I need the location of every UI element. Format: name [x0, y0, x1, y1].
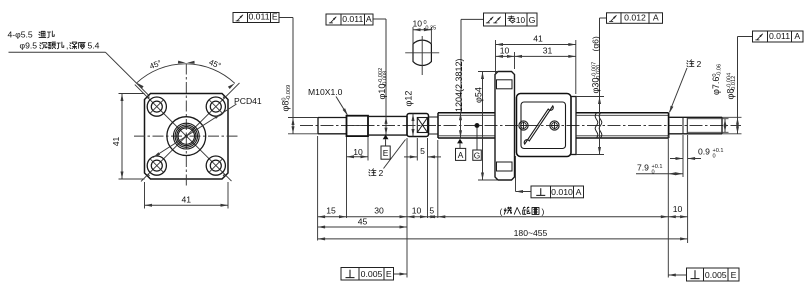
svg-text:10: 10	[673, 204, 683, 214]
svg-text:-0.25: -0.25	[424, 25, 437, 31]
svg-text:0.005: 0.005	[705, 270, 727, 280]
svg-text:E: E	[383, 148, 389, 158]
svg-text:A: A	[458, 150, 464, 160]
svg-text:0.012: 0.012	[624, 12, 646, 22]
svg-text:0: 0	[652, 169, 655, 175]
svg-text:G: G	[474, 150, 481, 160]
svg-text:7.9: 7.9	[637, 163, 649, 173]
svg-text:0.011: 0.011	[342, 14, 363, 24]
svg-text:2: 2	[697, 59, 702, 69]
svg-text:φ8-0.004-0.012: φ8-0.004-0.012	[726, 73, 738, 100]
svg-text:A: A	[576, 187, 582, 197]
svg-text:10: 10	[412, 206, 422, 216]
svg-text:15: 15	[326, 206, 336, 216]
svg-text:0.9: 0.9	[698, 147, 710, 157]
svg-text:1204(2.3812): 1204(2.3812)	[454, 58, 464, 112]
svg-text:31: 31	[543, 46, 553, 56]
svg-text:10: 10	[413, 19, 423, 29]
svg-text:0.011: 0.011	[248, 12, 269, 22]
svg-text:φ10-0.002-0.008: φ10-0.002-0.008	[377, 68, 389, 100]
svg-text:PCD41: PCD41	[234, 96, 262, 106]
svg-text:E: E	[272, 12, 278, 22]
svg-text:A: A	[653, 12, 659, 22]
svg-text:(g6): (g6)	[591, 36, 601, 51]
svg-text:4-φ5.5: 4-φ5.5	[8, 30, 33, 40]
svg-text:41: 41	[182, 195, 192, 205]
svg-text:φ54: φ54	[474, 87, 484, 103]
svg-text:2: 2	[379, 168, 384, 178]
svg-text:180~455: 180~455	[514, 228, 548, 238]
svg-text:10: 10	[500, 46, 510, 56]
svg-text:0.011: 0.011	[769, 31, 790, 41]
svg-text:φ9.5: φ9.5	[20, 41, 38, 51]
svg-text:45: 45	[358, 217, 368, 227]
svg-text:5: 5	[420, 146, 425, 156]
svg-text:): )	[542, 207, 545, 217]
svg-text:0.005: 0.005	[361, 269, 383, 279]
svg-text:φ12: φ12	[404, 91, 414, 107]
svg-text:5.4: 5.4	[88, 41, 100, 51]
svg-text:41: 41	[533, 34, 543, 44]
svg-text:,: ,	[66, 41, 68, 51]
svg-text:A: A	[366, 14, 372, 24]
svg-text:0.010: 0.010	[551, 187, 573, 197]
svg-text:5: 5	[429, 206, 434, 216]
svg-text:41: 41	[111, 137, 121, 147]
svg-text:G: G	[529, 15, 536, 25]
svg-text:φ30-0.007-0.020: φ30-0.007-0.020	[591, 62, 603, 94]
svg-text:10: 10	[353, 147, 363, 157]
svg-text:(: (	[500, 207, 503, 217]
svg-text:A: A	[794, 31, 800, 41]
svg-text:10: 10	[516, 16, 526, 25]
svg-text:30: 30	[374, 206, 384, 216]
svg-text:M10X1.0: M10X1.0	[308, 87, 343, 97]
svg-text:E: E	[731, 270, 737, 280]
svg-text:0: 0	[713, 153, 716, 159]
svg-text:E: E	[386, 269, 392, 279]
